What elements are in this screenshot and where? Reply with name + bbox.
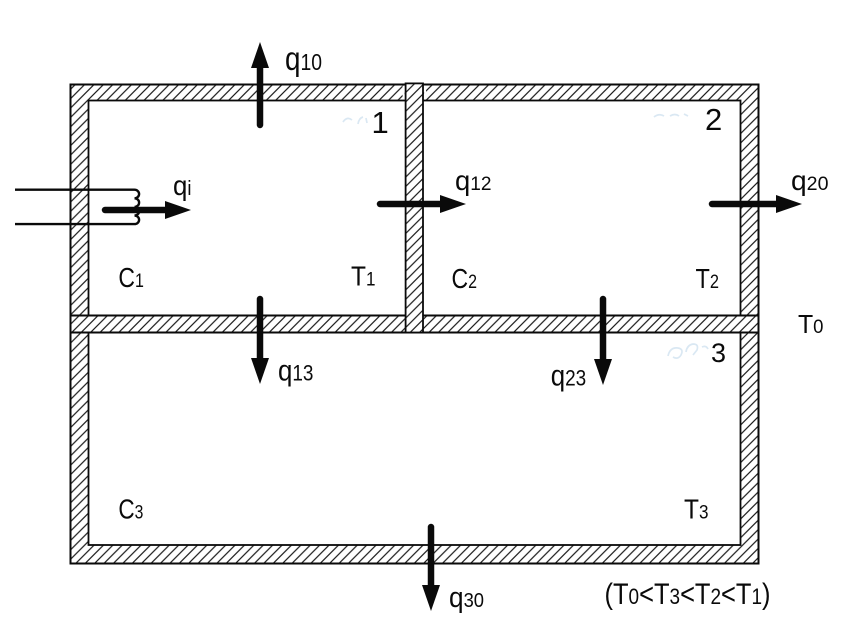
svg-text:3: 3: [711, 338, 726, 368]
svg-text:1: 1: [372, 105, 389, 140]
svg-text:2: 2: [705, 102, 722, 137]
